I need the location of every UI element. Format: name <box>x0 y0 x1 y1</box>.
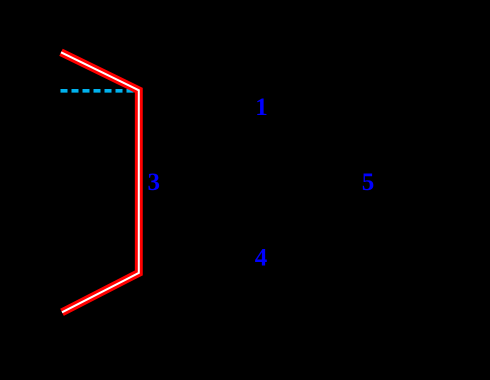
svg-text:5: 5 <box>362 169 375 196</box>
mirror red outline <box>61 52 139 312</box>
mirror white core <box>61 52 139 312</box>
svg-text:1: 1 <box>255 94 268 121</box>
svg-text:4: 4 <box>255 244 268 271</box>
svg-text:3: 3 <box>147 169 160 196</box>
dashed optical axis stub <box>61 89 138 93</box>
